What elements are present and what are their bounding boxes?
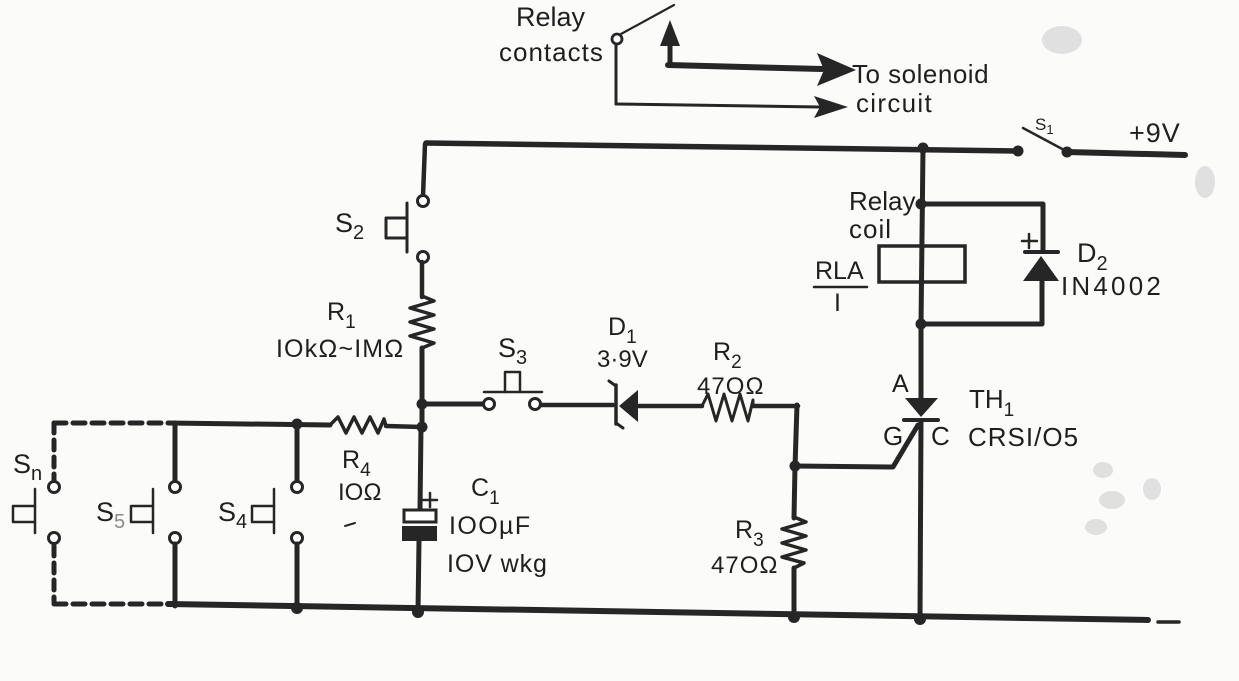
capacitor C1 (402, 510, 437, 541)
wire S4 branch top (295, 424, 300, 481)
wire S5 branch top (173, 423, 178, 481)
wire R2 to corner (753, 404, 798, 409)
svg-text:47OΩ: 47OΩ (697, 373, 765, 400)
switch S4 top terminal (292, 482, 303, 493)
diode D2 plus sign (1022, 234, 1037, 248)
dashed box top (54, 421, 168, 426)
svg-text:IOV wkg: IOV wkg (447, 550, 548, 578)
switch S3 left terminal (484, 399, 495, 410)
switch S3 button (484, 372, 542, 392)
arrow to solenoid (thick) (668, 53, 856, 86)
wire S5 branch bottom (173, 544, 178, 606)
label Relay coil (849, 186, 915, 244)
arrow to circuit (lower) (616, 96, 848, 118)
svg-text:To solenoid: To solenoid (852, 59, 989, 89)
label To solenoid circuit (852, 59, 989, 118)
svg-text:G: G (883, 421, 903, 451)
svg-text:CRSI/O5: CRSI/O5 (968, 422, 1079, 452)
node S4 bottom (291, 602, 303, 614)
diode D2 (1023, 252, 1059, 281)
svg-text:I: I (834, 289, 841, 317)
svg-text:circuit: circuit (856, 88, 933, 118)
resistor R3 (782, 517, 806, 568)
node relay/D2 bottom (916, 319, 927, 330)
top supply rail (426, 143, 1018, 151)
svg-text:Relay: Relay (516, 2, 586, 32)
resistor R2 (702, 394, 753, 421)
wire R3 to bottom rail (792, 568, 797, 618)
switch S5 button (131, 489, 153, 533)
svg-text:contacts: contacts (499, 37, 604, 67)
switch S5 bottom terminal (170, 533, 181, 544)
wire from contact down (615, 44, 618, 104)
wire S2 to R1 (420, 262, 425, 297)
gate wire to thyristor (795, 425, 918, 467)
wire node to C1 (420, 427, 421, 510)
relay coil RLA (879, 246, 965, 282)
resistor R1 (410, 296, 434, 348)
wire R1 down to node (420, 348, 425, 430)
wire to D2 top (921, 204, 1043, 250)
svg-text:IOkΩ~IMΩ: IOkΩ~IMΩ (276, 335, 404, 363)
wire node to R3 (794, 466, 795, 518)
node relay/D2 top (916, 199, 927, 210)
resistor R4 (330, 417, 386, 433)
switch Sn top terminal (49, 482, 60, 493)
negative terminal (1158, 620, 1179, 624)
switch S5 top terminal (170, 482, 181, 493)
switch S4 button (252, 489, 274, 533)
svg-text:coil: coil (849, 214, 892, 244)
switch S4 bottom terminal (292, 533, 303, 544)
switch S1 contact dot right (1062, 147, 1073, 158)
thyristor TH1 anode wire (919, 324, 924, 399)
svg-text:IN4002: IN4002 (1061, 271, 1164, 301)
wire node to S3 (422, 402, 483, 407)
wire to +9V (1067, 152, 1185, 155)
switch S2 top terminal (418, 196, 429, 207)
wire corner down to gate node (795, 405, 797, 467)
node C1 bottom (412, 606, 424, 618)
wire D1 to R2 (638, 404, 702, 409)
label RLA/1 (814, 257, 867, 317)
wire S3 to D1 (541, 403, 613, 408)
capacitor C1 plus sign (423, 493, 437, 507)
node R1/R4/C1 (417, 422, 428, 433)
switch Sn bottom terminal (49, 533, 60, 544)
node cathode bottom (914, 613, 926, 625)
node top rail / relay branch (918, 143, 929, 154)
switch S1 blade (1023, 128, 1066, 151)
bottom rail (168, 604, 1148, 620)
svg-text:+9V: +9V (1129, 118, 1181, 148)
svg-text:IOOµF: IOOµF (449, 512, 532, 540)
relay contact blade (621, 5, 674, 34)
svg-text:Relay: Relay (849, 186, 915, 216)
node R3 bottom (788, 611, 800, 623)
switch Sn button (13, 489, 35, 533)
wire corner down to S2 (423, 144, 425, 196)
svg-text:IOΩ: IOΩ (338, 479, 382, 506)
switch S3 right terminal (530, 399, 541, 410)
zener diode D1 (609, 381, 638, 428)
svg-text:3·9V: 3·9V (597, 346, 648, 373)
relay branch wire down (921, 148, 923, 326)
svg-text:RLA: RLA (815, 257, 864, 285)
dashed box left lower (52, 546, 57, 602)
relay contact terminal circle (612, 34, 622, 44)
label Relay contacts (499, 2, 604, 67)
node gate/R3 (790, 461, 801, 472)
switch S2 bottom terminal (418, 252, 429, 263)
thyristor cathode wire (920, 421, 921, 619)
wire C1 to bottom rail (418, 541, 419, 612)
wire S4 branch bottom (295, 544, 300, 608)
top bank wire (168, 423, 330, 425)
dashed box bottom (54, 602, 168, 607)
switch S2 button (386, 203, 407, 252)
svg-text:47OΩ: 47OΩ (711, 552, 779, 579)
stray mark (345, 523, 355, 526)
node R1/S3 (417, 399, 428, 410)
switch S1 contact dot left (1013, 146, 1024, 157)
svg-text:C: C (931, 421, 950, 451)
wire D2 bottom (921, 279, 1042, 324)
svg-text:A: A (892, 370, 909, 398)
node S4 top (292, 419, 303, 430)
dashed box left upper (52, 423, 57, 480)
arrow up (vertical) (660, 20, 680, 64)
thyristor TH1 (904, 398, 938, 420)
wire R4 to node (386, 426, 422, 427)
scan smudges (1042, 26, 1215, 535)
